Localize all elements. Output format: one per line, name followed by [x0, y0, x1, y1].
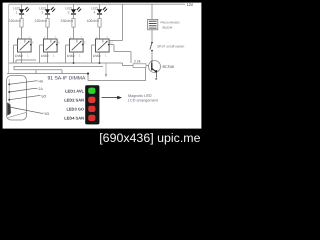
- svg-text:1N60: 1N60: [67, 54, 75, 58]
- wire bus riser x14: [13, 67, 15, 70]
- connector J1 inner edge: [8, 79, 10, 115]
- transistor Q1 base bar: [151, 63, 153, 71]
- svg-text:5: 5: [32, 41, 34, 44]
- LED D2 light arrow 2: [52, 9, 54, 11]
- svg-text:1: 1: [16, 10, 18, 14]
- wire LED2 anode: [47, 4, 49, 9]
- svg-text:[690x436] upic.me: [690x436] upic.me: [99, 131, 200, 145]
- callout line pin 2: [9, 88, 35, 92]
- svg-text:2A: 2A: [39, 87, 43, 91]
- connector J1 body: [7, 76, 27, 120]
- wire bus E to junction: [7, 73, 88, 75]
- wire R5 to Q1 base: [146, 65, 149, 67]
- relay K4 contact: [102, 39, 104, 43]
- svg-text:4: 4: [94, 10, 96, 14]
- wire bus riser x16: [15, 60, 17, 63]
- svg-text:1N60: 1N60: [41, 54, 49, 58]
- svg-text:220ohm: 220ohm: [9, 19, 22, 23]
- svg-text:LED: LED: [13, 6, 20, 10]
- relay K3 box: [70, 39, 84, 52]
- wire bus riser x62: [61, 70, 63, 74]
- resistor R5 2.2k: [133, 64, 146, 68]
- svg-text:1: 1: [79, 54, 81, 57]
- LED D4 light arrow 1: [103, 8, 105, 10]
- connector J1 pin 1 dot: [8, 83, 10, 85]
- wire bus A: [16, 59, 36, 61]
- switch S1 lever: [150, 43, 152, 49]
- wire bus B corner down: [122, 63, 124, 66]
- wire LED1 anode: [21, 4, 23, 9]
- svg-text:7: 7: [107, 36, 109, 39]
- wire K3 left drop: [65, 45, 67, 63]
- LED D2 triangle: [45, 9, 50, 13]
- LED D2 light arrow 1: [51, 8, 53, 10]
- wire K2 left drop: [39, 45, 41, 63]
- LED D4 light arrow 2: [104, 9, 106, 11]
- svg-text:LED2 SAN: LED2 SAN: [64, 98, 84, 102]
- svg-text:1N60: 1N60: [15, 54, 23, 58]
- wire to R5: [123, 65, 134, 67]
- svg-text:LED4 SAN: LED4 SAN: [64, 116, 84, 120]
- wire K4 left drop: [91, 45, 93, 63]
- relay K4 right pin dot: [108, 44, 110, 46]
- wire rail to buzzer BZ1: [151, 4, 153, 19]
- svg-text:Piezo electric: Piezo electric: [161, 21, 180, 25]
- connector J1 pin 4 dot: [8, 106, 10, 108]
- relay K1 contact: [24, 39, 26, 43]
- svg-text:2.2k: 2.2k: [134, 59, 141, 63]
- wire R2 to relay K2: [47, 27, 49, 39]
- wire 12V top rail: [9, 3, 185, 5]
- switch S1 top contact: [151, 42, 153, 44]
- relay K3 right pin dot: [82, 44, 84, 46]
- svg-text:LED: LED: [39, 6, 46, 10]
- relay K4 switch lever: [98, 42, 107, 51]
- LED D4 triangle: [97, 9, 102, 13]
- svg-text:5O: 5O: [45, 112, 50, 116]
- switch S1 bottom contact: [151, 50, 153, 52]
- wire switch to Q1 collector: [151, 51, 153, 60]
- black frame right: [201, 0, 204, 148]
- wire K2 bottom pin: [47, 52, 49, 58]
- svg-text:7: 7: [55, 36, 57, 39]
- wire LED3 cathode to resistor: [73, 15, 75, 19]
- svg-text:LED3 GO: LED3 GO: [66, 107, 84, 111]
- svg-text:7: 7: [112, 40, 114, 43]
- wire K1 left pin: [14, 44, 18, 46]
- relay K3 switch lever: [72, 42, 81, 51]
- svg-text:LED1 AVL: LED1 AVL: [65, 89, 84, 93]
- buzzer BZ1 body: [148, 19, 158, 29]
- svg-text:2: 2: [96, 36, 98, 39]
- LED indicator 3: [88, 106, 95, 112]
- wire K3 left pin: [66, 44, 70, 46]
- LED D3 triangle: [71, 9, 76, 13]
- svg-text:2: 2: [18, 36, 20, 39]
- wire buzzer to switch S1: [151, 30, 153, 42]
- relay K4 box: [96, 39, 110, 52]
- wire K2 to bus: [47, 58, 49, 63]
- wire Q1 emitter down: [155, 72, 157, 77]
- svg-text:5: 5: [58, 41, 60, 44]
- junction dot bus E: [87, 73, 89, 75]
- transistor Q1 collector lead: [151, 60, 153, 64]
- resistor R4 100ohm: [98, 19, 101, 28]
- wire K4 left pin: [92, 44, 96, 46]
- wire LED1 cathode to resistor: [21, 15, 23, 19]
- junction dot bus B x99: [99, 62, 101, 64]
- svg-text:BC548: BC548: [163, 65, 174, 69]
- wire LED2 cathode to resistor: [47, 15, 49, 19]
- wire bus riser x36: [35, 70, 37, 74]
- wire K3 bottom pin: [73, 52, 75, 58]
- svg-text:1: 1: [105, 54, 107, 57]
- wire left border bus: [8, 4, 10, 74]
- svg-text:91 SA-IF DIMMA: 91 SA-IF DIMMA: [48, 75, 86, 81]
- connector J1 pin 3 dot: [8, 99, 10, 101]
- svg-text:100ohm: 100ohm: [87, 19, 100, 23]
- LED display module body: [86, 86, 100, 125]
- svg-text:2: 2: [70, 36, 72, 39]
- resistor R2 220ohm: [46, 19, 49, 28]
- svg-text:2: 2: [42, 10, 44, 14]
- resistor R1 220ohm: [20, 19, 23, 28]
- wire K4 path down: [113, 45, 115, 52]
- svg-text:H6: H6: [39, 79, 44, 83]
- LED indicator 2: [88, 97, 95, 103]
- LED D1 light arrow 1: [25, 8, 27, 10]
- svg-text:5: 5: [84, 41, 86, 44]
- svg-text:2: 2: [44, 36, 46, 39]
- caption bar: [0, 129, 204, 148]
- wire LED3 anode: [73, 4, 75, 9]
- LED D3 light arrow 2: [78, 9, 80, 11]
- LED indicator 1: [88, 88, 95, 94]
- wire K4 right pin out: [110, 44, 114, 46]
- LED indicator 4: [88, 115, 95, 121]
- ground node dot: [155, 78, 157, 80]
- LED D1 triangle: [19, 9, 24, 13]
- relay K1 right pin dot: [30, 44, 32, 46]
- junction dot bus B x73: [73, 62, 75, 64]
- connector J1 dark wedge: [7, 102, 11, 115]
- svg-text:7: 7: [29, 36, 31, 39]
- svg-text:1: 1: [27, 54, 29, 57]
- connector J1 inner diagonal: [8, 112, 26, 117]
- wire LED4 cathode to resistor: [99, 15, 101, 19]
- svg-text:5O: 5O: [42, 94, 47, 98]
- wire K2 left pin: [40, 44, 44, 46]
- svg-text:1N60: 1N60: [93, 54, 101, 58]
- svg-text:Magnetic LED: Magnetic LED: [128, 94, 152, 98]
- svg-text:330ohm: 330ohm: [61, 19, 74, 23]
- relay K2 box: [44, 39, 58, 52]
- wire K3 to bus: [73, 58, 75, 63]
- wire K1 to bus: [21, 58, 23, 63]
- relay K1 switch lever: [20, 42, 29, 51]
- wire rail y80: [88, 80, 146, 82]
- black frame left: [0, 0, 3, 148]
- wire K4 to bus: [99, 58, 101, 63]
- svg-text:3: 3: [68, 10, 70, 14]
- wire x88 drop: [87, 74, 89, 81]
- annotation arrow: [102, 97, 118, 99]
- svg-text:Buzzer: Buzzer: [163, 25, 173, 29]
- relay K3 contact: [76, 39, 78, 43]
- wire R1 to relay K1: [21, 27, 23, 39]
- wire bus B: [9, 62, 123, 64]
- wire LED4 anode: [99, 4, 101, 9]
- svg-text:7: 7: [81, 36, 83, 39]
- wire bus D: [14, 69, 62, 71]
- transistor Q1 emitter lead: [152, 68, 157, 72]
- resistor R3 330ohm: [72, 19, 75, 28]
- wire drop to K4 top-right pin: [110, 40, 123, 42]
- relay K2 switch lever: [46, 42, 55, 51]
- relay K2 contact: [50, 39, 52, 43]
- wire riser x145: [145, 68, 147, 81]
- relay K2 right pin dot: [56, 44, 58, 46]
- svg-text:LCD arrangement: LCD arrangement: [128, 98, 158, 102]
- wire rail drop x122: [122, 4, 124, 40]
- svg-text:SPST on/off switch: SPST on/off switch: [157, 45, 184, 49]
- svg-text:LED: LED: [91, 6, 98, 10]
- white schematic background: [0, 0, 204, 148]
- callout line pin 1: [9, 81, 35, 84]
- wire K4 path right: [114, 51, 131, 53]
- relay K1 box: [18, 39, 32, 52]
- wire R3 to relay K3: [73, 27, 75, 39]
- wire K1 bottom pin: [21, 52, 23, 58]
- callout line pin 4: [9, 107, 41, 113]
- svg-text:220ohm: 220ohm: [35, 19, 48, 23]
- wire R4 to relay K4: [99, 27, 101, 39]
- svg-text:12V: 12V: [187, 3, 194, 7]
- wire drop x106 with arrow: [105, 63, 107, 75]
- wire bus C: [14, 66, 104, 68]
- svg-text:LED: LED: [65, 6, 72, 10]
- LED D1 light arrow 2: [26, 9, 28, 11]
- transistor Q1 BC548: [149, 61, 161, 73]
- callout line pin 3: [9, 96, 38, 100]
- wire K4 path to bus: [130, 52, 132, 63]
- connector J1 pin 2 dot: [8, 91, 10, 93]
- svg-text:1: 1: [53, 54, 55, 57]
- black frame top: [0, 0, 204, 3]
- LED D3 light arrow 1: [77, 8, 79, 10]
- wire K4 bottom pin: [99, 52, 101, 58]
- wire K1 left drop: [13, 45, 15, 63]
